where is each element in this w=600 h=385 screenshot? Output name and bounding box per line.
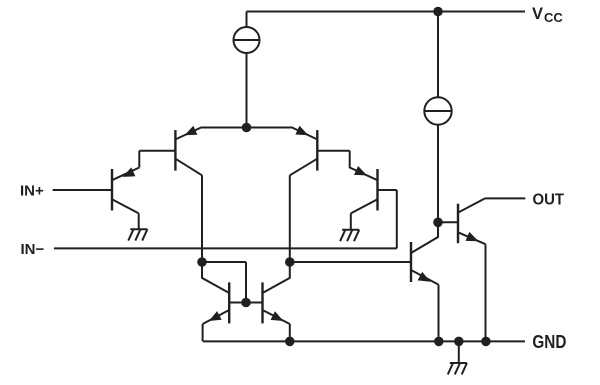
transistor Q6 xyxy=(411,222,439,341)
svg-text:V: V xyxy=(532,5,543,23)
ground (GND rail) xyxy=(448,363,467,374)
transistor Q5 xyxy=(458,198,525,341)
wire GND rail xyxy=(203,340,525,342)
svg-text:IN−: IN− xyxy=(21,241,45,258)
ground (Q4 collector) xyxy=(340,230,359,241)
svg-text:IN+: IN+ xyxy=(20,182,44,199)
current source I2 xyxy=(424,97,451,124)
wire node A to mirror base tie xyxy=(202,262,246,303)
wire node C to Q6 base xyxy=(290,261,410,263)
node diff-pair tail xyxy=(242,123,252,133)
current source I1 xyxy=(234,27,260,53)
wire I2 bottom to node xyxy=(437,125,439,223)
transistor Q4 xyxy=(350,151,397,249)
node ground tap on rail xyxy=(454,337,464,347)
svg-text:GND: GND xyxy=(532,332,566,352)
wire top rail VCC xyxy=(247,11,526,13)
node C (mirror right) xyxy=(285,257,295,267)
ground (Q1 collector) xyxy=(128,229,147,240)
label VCC xyxy=(532,5,563,25)
node Q5 base / Q6 collector xyxy=(433,218,443,228)
transistor Q2 xyxy=(175,126,246,262)
wire Q5 base xyxy=(438,221,458,223)
transistor Q1 xyxy=(112,151,175,230)
wire I2 top stub xyxy=(437,12,439,98)
wire current source I1 top stub xyxy=(246,12,248,28)
node B (mirror common base) xyxy=(241,298,251,308)
node A (mirror left) xyxy=(197,257,207,267)
wire I1 bottom to tail node xyxy=(246,53,248,128)
svg-text:OUT: OUT xyxy=(533,192,565,209)
wire ground stub xyxy=(458,341,460,363)
transistor Q3 xyxy=(247,126,350,262)
node Q6 emitter on rail xyxy=(434,337,444,347)
node Q5 emitter on rail xyxy=(481,337,491,347)
node VCC-rail junction xyxy=(433,7,443,17)
transistor Q7 xyxy=(202,262,246,341)
node D (Q8 emitter on rail) xyxy=(285,337,295,347)
wire IN+ lead xyxy=(53,189,111,191)
transistor Q8 xyxy=(246,262,290,341)
wire IN- lead xyxy=(54,247,397,249)
svg-text:CC: CC xyxy=(544,10,563,25)
